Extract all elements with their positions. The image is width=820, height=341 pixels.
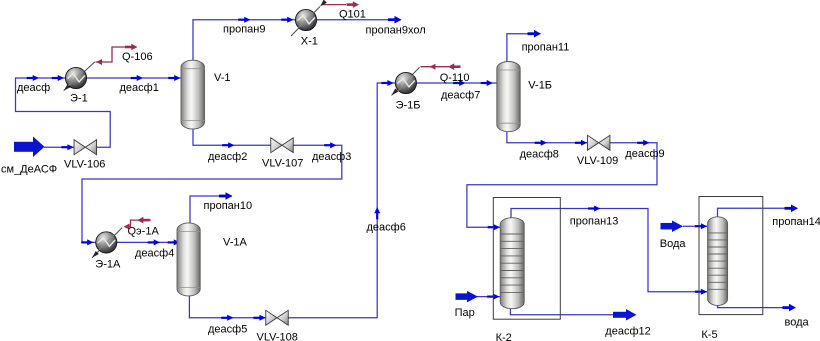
svg-text:К-2: К-2 — [496, 332, 512, 341]
svg-text:пропан10: пропан10 — [204, 200, 253, 212]
svg-text:VLV-106: VLV-106 — [64, 159, 105, 171]
svg-text:V-1: V-1 — [214, 72, 231, 84]
svg-text:деасф3: деасф3 — [312, 151, 351, 163]
svg-text:Пар: Пар — [455, 307, 475, 319]
svg-text:Q101: Q101 — [339, 9, 366, 21]
svg-text:Э-1Б: Э-1Б — [396, 100, 421, 112]
svg-text:деасф9: деасф9 — [625, 148, 664, 160]
svg-text:X-1: X-1 — [301, 36, 318, 48]
svg-text:VLV-108: VLV-108 — [257, 332, 298, 341]
svg-text:V-1A: V-1A — [223, 237, 248, 249]
svg-text:Э-1А: Э-1А — [95, 259, 121, 271]
svg-text:см_ДеАСФ: см_ДеАСФ — [1, 164, 57, 176]
svg-text:деасф4: деасф4 — [135, 248, 174, 260]
svg-text:пропан9хол: пропан9хол — [366, 24, 426, 36]
svg-text:деасф7: деасф7 — [441, 90, 480, 102]
svg-text:деасф12: деасф12 — [605, 325, 650, 337]
svg-text:Q-110: Q-110 — [440, 72, 470, 84]
svg-text:пропан9: пропан9 — [223, 24, 265, 36]
svg-text:Э-1: Э-1 — [70, 93, 88, 105]
svg-text:К-5: К-5 — [701, 329, 717, 341]
svg-text:деасф8: деасф8 — [520, 149, 559, 161]
svg-text:пропан11: пропан11 — [522, 42, 570, 54]
svg-text:деасф1: деасф1 — [120, 82, 159, 94]
svg-text:V-1Б: V-1Б — [528, 79, 552, 91]
svg-text:деасф6: деасф6 — [367, 222, 406, 234]
svg-text:пропан14: пропан14 — [772, 216, 820, 228]
svg-text:VLV-109: VLV-109 — [577, 155, 618, 167]
svg-text:Q-106: Q-106 — [122, 51, 153, 63]
svg-text:деасф2: деасф2 — [208, 151, 247, 163]
svg-text:Qэ-1А: Qэ-1А — [128, 226, 160, 238]
svg-text:вода: вода — [785, 317, 810, 329]
svg-text:VLV-107: VLV-107 — [262, 158, 303, 170]
svg-text:деасф: деасф — [17, 82, 50, 94]
svg-text:деасф5: деасф5 — [208, 324, 247, 336]
svg-text:Вода: Вода — [660, 238, 687, 250]
svg-text:пропан13: пропан13 — [570, 216, 619, 228]
